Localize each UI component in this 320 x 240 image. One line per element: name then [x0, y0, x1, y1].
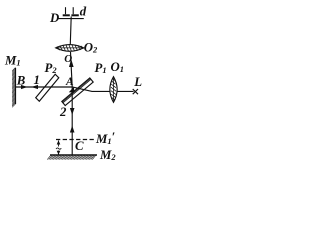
arrow up (output beam) [69, 59, 74, 67]
beamsplitter P1 [62, 78, 93, 106]
svg-text:C: C [75, 139, 84, 153]
source cross [133, 89, 138, 94]
wire: vertical optical axis (slit to lens O2) [69, 17, 72, 45]
slit d (jaw bars) [63, 14, 79, 16]
beam 2: vertical axis A to M2 [71, 87, 73, 155]
svg-text:L: L [133, 75, 142, 89]
virtual mirror M1' (dashed) [56, 139, 95, 141]
lens O2 [56, 45, 84, 52]
beam 1: horizontal line M1 to source [16, 87, 134, 91]
arrow down (beam toward M2) [70, 108, 75, 115]
mirror M2 [47, 155, 97, 160]
lens O1 [110, 77, 117, 103]
node A (junction blob) [69, 87, 75, 93]
svg-text:2: 2 [59, 105, 67, 119]
detector plane D line [59, 18, 84, 20]
arrow right (return beam near B) [21, 85, 28, 89]
svg-text:D: D [49, 11, 59, 25]
svg-text:d: d [80, 4, 87, 18]
svg-text:A: A [65, 76, 74, 88]
slit hatch ticks [66, 7, 74, 14]
svg-text:1: 1 [34, 73, 40, 87]
svg-text:B: B [16, 74, 26, 88]
arrow up (return beam) [70, 126, 75, 133]
wire: vertical axis (lens O2 to A) [71, 52, 73, 87]
plate P2 [36, 74, 59, 101]
mirror M1 [12, 68, 15, 108]
arrow left (beam toward M1) [31, 85, 38, 89]
svg-text:M1′: M1′ [95, 130, 115, 146]
gap dimension arrow with break [56, 140, 61, 154]
